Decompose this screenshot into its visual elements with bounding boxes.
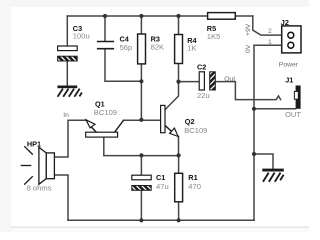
svg-text:Q1: Q1 [95,100,105,109]
junction C1 bottom on bus [139,218,143,222]
wire net A horizontal (Q1 base / C1 / R1 / Q2 emitter) [104,155,179,157]
wire C1 top lead [140,155,142,175]
junction node X (R4 / C2 / Q2 collector) [176,80,180,84]
ground below C3 [57,86,82,97]
junction R1 bottom on bus [177,218,181,222]
connector J2 (power) [282,26,301,53]
wire Q2 collector lead up to node X [165,82,179,110]
wire R4 top lead [178,16,180,35]
capacitor C3 (electrolytic, vertical) [58,46,78,61]
wire J2 pin 1 to 0V line down right side [254,45,282,220]
wire speaker top lead to In node at Q1 emitter [55,120,86,157]
junction R3 bottom on Q2 base wire [139,118,143,122]
svg-text:470: 470 [188,182,201,191]
capacitor C4 [97,42,114,49]
junction ground wire on 0V line [252,152,256,156]
svg-text:HP1: HP1 [27,139,41,148]
wire 0V bottom bus [68,219,254,221]
svg-text:+9V: +9V [245,23,252,36]
wire C4 bottom lead to node X [105,50,141,82]
junction R3 top on supply rail [139,14,143,18]
wire J1 sleeve to 0V line [254,108,296,110]
wire C3 top lead [66,16,68,46]
resistor R3 [138,34,146,64]
junction C4 lead on R3 bottom wire [139,79,143,83]
svg-text:0V: 0V [245,44,252,53]
junction J1 sleeve on 0V line [252,107,256,111]
wire R3 top lead [140,16,142,34]
wire Q2 emitter lead down to net A [178,137,180,156]
junction C1 top on net A [139,153,143,157]
wire C4 top lead [104,16,106,41]
svg-text:BC109: BC109 [184,126,207,135]
svg-text:2: 2 [268,28,272,35]
svg-text:C2: C2 [197,62,206,71]
svg-text:56p: 56p [120,43,133,52]
wire speaker bottom lead to bus [55,175,68,220]
svg-text:8 ohms: 8 ohms [27,184,52,193]
svg-text:BC109: BC109 [94,108,117,117]
svg-text:100u: 100u [73,32,90,41]
transistor Q2 [161,105,179,136]
svg-text:Out: Out [224,76,235,83]
svg-text:OUT: OUT [285,110,301,119]
junction R1 top / Q2 emitter on net A [177,153,181,157]
wire node X to C2 left plate [179,81,200,83]
wire C3 bottom lead to ground [66,61,68,86]
wire C1 bottom lead [140,190,142,220]
svg-text:1: 1 [268,39,272,46]
wire Q1 collector to Q2 base [124,119,161,121]
wire R3 bottom lead down to Q2 base node [140,64,142,120]
svg-text:In: In [63,112,69,119]
svg-text:Power: Power [279,61,299,68]
svg-text:47u: 47u [156,182,169,191]
svg-text:1K5: 1K5 [207,32,221,41]
wire R4 bottom lead to node X [178,64,180,82]
resistor R5 [208,13,236,20]
svg-text:82K: 82K [151,43,165,52]
speaker HP1 [21,146,55,184]
wire supply rail right segment (R5 to corner) [235,15,253,17]
wire +9V rail corner to J2 pin 2 [253,16,282,35]
svg-text:22u: 22u [197,91,210,100]
capacitor C1 (electrolytic, vertical) [132,175,151,190]
transistor Q1 [86,120,124,137]
wire 0V line to right ground [254,154,273,169]
svg-text:J2: J2 [281,18,289,27]
svg-text:J1: J1 [285,76,293,85]
ground near J1 [262,169,284,182]
wire supply rail left segment (C3 to R5) [67,15,207,17]
resistor R1 [175,173,183,202]
junction R4 top on supply rail [176,14,180,18]
wire C2 right plate Out lead to J1 tip contact [215,82,280,100]
connector J1 (output jack) [294,86,300,109]
wire R1 bottom lead [178,202,180,221]
junction C4 top on supply rail [103,14,107,18]
resistor R4 [175,35,183,64]
svg-text:1K: 1K [187,44,196,53]
wire Q1 base lead [103,137,105,156]
wire R1 top lead [178,155,180,173]
capacitor C2 (electrolytic, horizontal) [199,72,215,90]
